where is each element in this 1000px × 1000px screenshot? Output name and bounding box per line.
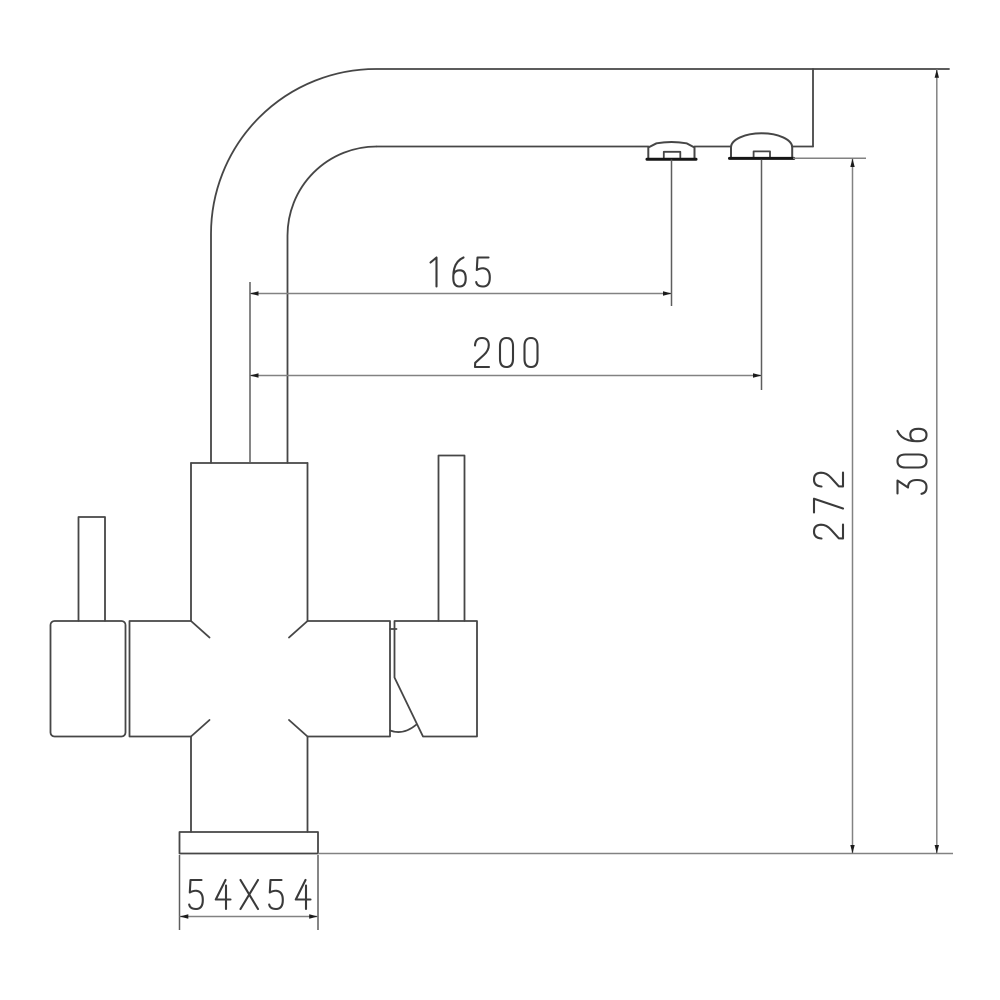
right handle swing arc — [390, 725, 417, 733]
junction chamfer top-right — [289, 621, 308, 638]
right handle lever — [439, 456, 465, 622]
drop line from large aerator center — [761, 160, 763, 391]
large aerator — [730, 133, 794, 158]
spout tip right edge — [812, 69, 814, 147]
baseline extension to right — [318, 853, 953, 855]
body column left edge lower — [190, 737, 192, 833]
right handle body (bottom-left corner clipped) — [395, 621, 478, 737]
dimension 306 — [898, 69, 940, 854]
junction chamfer top-left — [191, 621, 210, 638]
right handle top tick — [390, 628, 397, 630]
spout outer profile (riser left edge + curve + top edge) — [211, 69, 813, 463]
body column left edge upper — [190, 463, 192, 621]
small aerator — [647, 142, 696, 159]
dimension 165 — [250, 258, 672, 296]
dimension 272 — [793, 158, 866, 853]
riser centerline extension — [249, 282, 251, 462]
body column right edge lower — [307, 737, 309, 833]
spout top extension line to 306 dimension — [813, 68, 949, 70]
right arm — [308, 621, 391, 737]
left handle lever — [79, 517, 106, 621]
spout inner profile (riser right edge + inner curve) — [288, 147, 377, 464]
base flange — [180, 832, 319, 854]
dimension 54X54 — [180, 855, 319, 930]
body column top edge — [191, 462, 308, 464]
left handle body — [51, 621, 126, 737]
drop line from small aerator center — [671, 160, 673, 307]
junction chamfer bottom-right — [289, 720, 308, 737]
spout bottom edge segments — [377, 146, 814, 148]
junction chamfer bottom-left — [191, 720, 210, 737]
left arm — [130, 621, 192, 737]
body column right edge upper — [307, 463, 309, 621]
dimension 200 — [250, 338, 762, 378]
